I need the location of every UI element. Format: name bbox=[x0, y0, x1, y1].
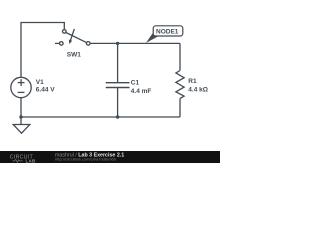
svg-text:http://circuitlab.com/c/ba7dd6: http://circuitlab.com/c/ba7dd6e966 bbox=[55, 157, 117, 162]
svg-text:R1: R1 bbox=[188, 78, 197, 85]
wire bottom rail bbox=[21, 116, 180, 118]
svg-text:NODE1: NODE1 bbox=[156, 29, 179, 36]
switch SW1 bbox=[55, 29, 90, 45]
wire ground stub bbox=[20, 117, 22, 125]
capacitor C1 bbox=[106, 83, 130, 88]
svg-text:4.4 kΩ: 4.4 kΩ bbox=[188, 87, 208, 94]
wire V1 bottom bbox=[20, 98, 22, 117]
svg-text:C1: C1 bbox=[131, 79, 140, 86]
voltage source V1 bbox=[11, 77, 31, 97]
svg-text:4.4 mF: 4.4 mF bbox=[131, 88, 152, 95]
junction dot bottom left (gnd tap) bbox=[19, 115, 22, 118]
junction dot top (C1 tap) bbox=[116, 42, 119, 45]
resistor R1 bbox=[176, 71, 184, 99]
wire C1 branch bottom bbox=[117, 88, 119, 117]
svg-text:V1: V1 bbox=[36, 79, 44, 86]
ground bbox=[13, 125, 30, 134]
wire R1 branch top bbox=[179, 43, 181, 70]
switch arrow head bbox=[69, 40, 72, 45]
svg-text:LAB: LAB bbox=[26, 158, 36, 163]
svg-text:SW1: SW1 bbox=[67, 52, 81, 59]
svg-text:6.44 V: 6.44 V bbox=[36, 87, 55, 94]
wire R1 branch bottom bbox=[179, 99, 181, 118]
wire C1 branch top bbox=[117, 43, 119, 82]
node flag NODE1 bbox=[146, 33, 159, 43]
watermark bar bbox=[0, 151, 220, 163]
wire top rail right (switch throw to R1 top) bbox=[90, 42, 180, 44]
wire V1 top to switch pole bbox=[21, 23, 64, 78]
watermark logo wave bbox=[13, 159, 23, 162]
junction dot bottom (C1 tap) bbox=[116, 115, 119, 118]
